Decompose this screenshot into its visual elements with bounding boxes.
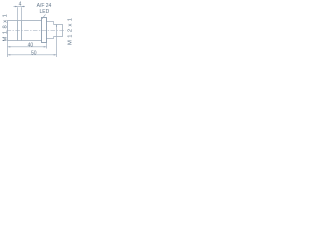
dim 50 arrow left xyxy=(8,54,11,55)
dim 40 ext left xyxy=(7,41,9,58)
dim 4 ext line left xyxy=(17,7,19,20)
svg-text:M12x1: M12x1 xyxy=(67,16,73,45)
dim 4 arrow right xyxy=(22,6,25,8)
centerline xyxy=(7,30,66,32)
rear housing top xyxy=(47,22,54,25)
hex nut A/F 24 xyxy=(42,18,47,43)
dim 40 arrow right xyxy=(44,46,47,47)
svg-text:40: 40 xyxy=(28,43,34,49)
shoulder tick top xyxy=(56,25,58,28)
dim 50 line xyxy=(8,54,57,56)
svg-text:50: 50 xyxy=(31,51,37,57)
LED leader xyxy=(42,15,46,19)
connector M12 body xyxy=(54,25,63,37)
svg-text:M18x1: M18x1 xyxy=(2,12,8,42)
dim 4 line xyxy=(14,6,26,8)
groove line 1 xyxy=(17,21,19,41)
dim 50 arrow right xyxy=(54,54,57,55)
connector thread shoulder xyxy=(56,25,58,37)
dim 4 arrow left xyxy=(15,6,18,8)
dim 40 ext right xyxy=(46,43,48,49)
svg-text:A/F 24: A/F 24 xyxy=(37,3,52,9)
rear housing bottom xyxy=(47,37,54,39)
dim 40 arrow left xyxy=(8,46,11,47)
dim 50 ext right xyxy=(56,37,58,58)
svg-text:LED: LED xyxy=(40,9,50,15)
barrel M18 body xyxy=(8,21,42,41)
dim 4 ext line right xyxy=(21,7,23,20)
groove line 2 xyxy=(21,21,23,41)
dim 40 line xyxy=(8,46,47,48)
svg-text:4: 4 xyxy=(19,1,22,7)
